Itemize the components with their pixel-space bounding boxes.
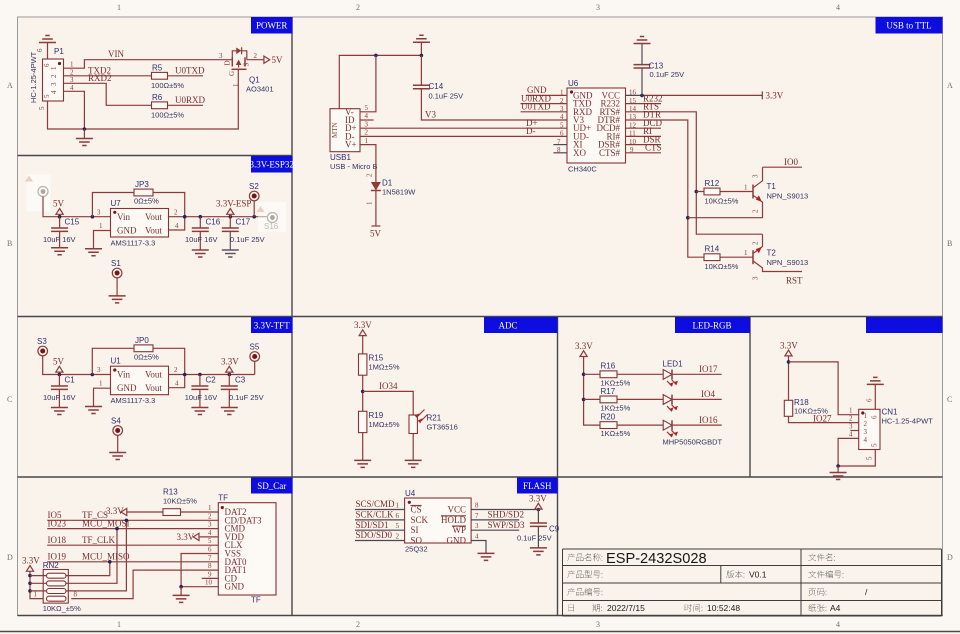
wire IO34 [363,391,414,415]
capacitor C1 [51,375,68,408]
svg-text:DTR: DTR [643,110,661,120]
svg-text:100Ω±5%: 100Ω±5% [151,81,184,90]
svg-text:R16: R16 [601,362,616,371]
ground R21 [405,460,422,467]
svg-text:3.3V-ESP32: 3.3V-ESP32 [249,160,293,170]
power port 3.3V LED [575,341,600,425]
junction C14 top [420,54,424,58]
svg-text:7: 7 [208,554,212,562]
svg-text:3.3V: 3.3V [575,341,593,351]
svg-text:JP0: JP0 [135,336,149,345]
ground U4 [478,553,495,560]
svg-text:3: 3 [365,120,369,128]
svg-text:5: 5 [866,456,874,460]
svg-text:VIN: VIN [108,49,124,59]
svg-text:GND: GND [117,383,137,393]
wire R15 to R19 [362,375,364,411]
resistor R6 [152,102,168,109]
svg-text:5: 5 [208,537,212,545]
svg-text:2: 2 [752,241,760,245]
svg-text:MCU_MISO: MCU_MISO [82,552,130,562]
svg-text:TF: TF [218,494,228,503]
wire U7 Vout pin4 jog [169,217,185,230]
wire GND label U6 pin1 [526,94,567,96]
svg-text:8: 8 [74,591,78,599]
test point S3 [37,337,111,375]
wire VCC to 3.3V [626,94,643,96]
svg-text:S4: S4 [111,417,121,426]
svg-text:1KΩ±5%: 1KΩ±5% [601,403,631,412]
svg-text:4: 4 [560,113,564,121]
svg-text:MHP5050RGBDT: MHP5050RGBDT [663,438,723,447]
svg-text:CTS#: CTS# [599,148,621,158]
svg-text:IO0: IO0 [784,157,798,167]
svg-text:0.1uF 25V: 0.1uF 25V [229,393,264,402]
svg-text:4: 4 [50,90,58,94]
svg-text:2: 2 [174,209,178,217]
svg-text:S16: S16 [264,222,279,231]
svg-text:VCC: VCC [447,505,466,515]
svg-text:1: 1 [99,222,103,230]
wire Q1 source to 5V [247,59,264,61]
svg-text:5: 5 [38,106,46,110]
svg-text:0Ω±5%: 0Ω±5% [134,197,159,206]
svg-text:2: 2 [50,74,58,78]
svg-text:0Ω±5%: 0Ω±5% [134,353,159,362]
resistor R14 [704,254,753,261]
wire V3 [421,89,567,120]
svg-text:B: B [7,239,12,248]
svg-text:2: 2 [864,420,868,428]
junction C9 [537,508,541,512]
wire U1 GND pin [94,388,111,406]
section tab blank right [866,317,943,333]
capacitor C14 [413,55,430,88]
wire DTR [626,110,705,258]
wire IO23 MCU_MOSI [47,528,218,530]
wire IO18 TF_CLK [47,544,218,546]
svg-text:3.3V-ESP: 3.3V-ESP [216,199,251,209]
svg-text:SD_Car: SD_Car [257,481,286,491]
svg-text:10uF 16V: 10uF 16V [43,235,76,244]
svg-text:3: 3 [475,522,479,530]
svg-text:Vin: Vin [117,212,130,222]
P1 inner pin digits [43,63,58,98]
svg-text:2: 2 [356,620,360,629]
svg-text:USB1: USB1 [330,153,351,162]
svg-text:6: 6 [43,63,51,67]
capacitor C17 [222,217,239,250]
svg-text:ADC: ADC [498,321,517,331]
resistor R16 [584,371,664,378]
svg-text:5: 5 [871,443,879,447]
svg-text:R5: R5 [152,64,163,73]
ground C2 [191,408,208,415]
svg-text:S3: S3 [37,337,47,346]
junction RN2 r3 [28,589,32,593]
svg-text:JP3: JP3 [135,180,149,189]
junction IO34 [361,390,365,394]
svg-text:SCK/CLK: SCK/CLK [356,510,395,520]
wire TXD2 to R5 [64,75,152,77]
test point S1 [111,259,122,296]
svg-text:10KΩ±5%: 10KΩ±5% [705,197,739,206]
svg-text:RST: RST [786,276,803,286]
ground C17 [222,250,239,257]
svg-text:V0.1: V0.1 [749,570,767,580]
svg-text:AMS1117-3.3: AMS1117-3.3 [111,239,156,248]
wire RN2 r1 to MISO [66,562,110,576]
svg-text:GT36516: GT36516 [427,423,458,432]
svg-text:IO27: IO27 [813,413,832,423]
svg-text:4: 4 [864,436,868,444]
svg-text:NPN_S9013: NPN_S9013 [767,258,809,267]
wire 3.3V to CN1 pin1 [789,362,859,415]
svg-text:B: B [947,239,952,248]
svg-text:6: 6 [36,48,44,52]
junction C17 [229,215,233,219]
svg-text:3.3V-TFT: 3.3V-TFT [254,321,290,331]
svg-text:3.3V: 3.3V [780,340,798,350]
svg-text:SCK: SCK [411,515,429,525]
svg-text:10uF 16V: 10uF 16V [185,235,218,244]
wire IO0 [763,166,803,168]
title date label [569,605,574,612]
wire U4 VCC [471,509,538,511]
svg-text:1N5819W: 1N5819W [382,188,416,197]
svg-text:8: 8 [475,502,479,510]
resistor JP3 [134,189,153,196]
svg-text:IO17: IO17 [699,364,718,374]
pin 3 stub CN1 [850,430,858,432]
svg-text:1: 1 [232,83,240,87]
svg-text:3: 3 [596,3,600,12]
power port 5V POWER [264,55,283,65]
svg-text:4: 4 [208,529,212,537]
wire R13 to TF pin1 [181,511,219,513]
svg-text:5: 5 [365,104,369,112]
section tab ADC [484,317,558,333]
svg-text:RXD2: RXD2 [88,73,112,83]
wire U0RXD [168,104,204,106]
junction RN2 r2 [28,582,32,586]
power port 3.3V R13 [106,506,127,516]
wire D+ [360,127,567,129]
svg-text:2: 2 [254,52,258,60]
wire RN2 r3 to TF_CS [66,520,126,591]
title version label [726,570,744,578]
svg-text:3: 3 [97,366,101,374]
svg-text:1: 1 [744,184,748,192]
svg-text:3: 3 [219,52,223,60]
svg-text:SI: SI [411,525,419,535]
svg-text:10uF 16V: 10uF 16V [185,393,218,402]
net label SDO/SD0 [355,530,405,540]
svg-text:FLASH: FLASH [523,481,552,491]
power port 3.3V VCC [762,91,783,101]
svg-text:5V: 5V [272,55,284,65]
net label CTS [626,143,662,153]
wire DAT1 to RN2 [71,570,218,599]
svg-text:10uF 16V: 10uF 16V [43,393,76,402]
svg-text:C15: C15 [65,218,80,227]
svg-text:1: 1 [117,3,121,12]
wire RXD2 to R6 [64,83,152,105]
svg-text:R12: R12 [705,179,720,188]
svg-text:6: 6 [560,130,564,138]
wire RTS [626,102,763,235]
svg-text:Vout: Vout [145,383,162,393]
resistor R5 [152,72,168,79]
svg-text:3.3V: 3.3V [22,556,40,566]
svg-text:2022/7/15: 2022/7/15 [607,603,645,613]
svg-text:D-: D- [526,126,536,136]
wire P1 pin4 to bus [64,91,85,129]
wire VSS to GND [181,554,218,587]
wire 3.3V to R13 [127,511,163,513]
svg-text:3: 3 [752,276,760,280]
power port 3.3V CN1 [780,340,798,400]
svg-text:SHD/SD2: SHD/SD2 [488,510,525,520]
svg-text:R13: R13 [163,488,178,497]
svg-text:0.1uF 25V: 0.1uF 25V [230,235,265,244]
svg-text:AO3401: AO3401 [246,85,274,94]
svg-text:2: 2 [396,532,400,540]
svg-text:1: 1 [365,137,369,145]
svg-text:1MΩ±5%: 1MΩ±5% [369,363,400,372]
ground S1 [109,296,126,303]
svg-text:SWP/SD3: SWP/SD3 [488,520,526,530]
svg-text:6: 6 [396,512,400,520]
svg-text:4: 4 [475,532,479,540]
svg-text:R6: R6 [152,93,163,102]
svg-text:1: 1 [849,407,853,415]
svg-text:2: 2 [752,209,760,213]
svg-text:U0TXD: U0TXD [175,66,205,76]
svg-text:4: 4 [836,3,840,12]
svg-text:3.3V: 3.3V [529,494,547,504]
junction R17 [582,398,586,402]
capacitor C15 [51,217,68,248]
wire V- riser [360,55,376,111]
wire V+ to D1 [360,145,376,182]
ground S4 [109,453,126,460]
svg-text:ESP-2432S028: ESP-2432S028 [606,551,707,567]
ground R19 [354,460,371,467]
net label R232 [626,93,663,103]
ground C16 [192,250,209,257]
svg-text:AMS1117-3.3: AMS1117-3.3 [111,396,156,405]
svg-text:GND: GND [225,582,245,592]
svg-text:25Q32: 25Q32 [405,545,428,554]
svg-text:U7: U7 [111,199,122,208]
junction C3 [228,373,232,377]
svg-text:D: D [7,553,13,562]
svg-text:S1: S1 [111,259,121,268]
svg-text:IO16: IO16 [699,415,718,425]
svg-text:U6: U6 [568,79,579,88]
title time label [685,604,703,612]
svg-text:10KΩ±5%: 10KΩ±5% [163,497,197,506]
net label DSR [626,134,662,144]
svg-text:1: 1 [117,620,121,629]
resistor R17 [584,396,664,403]
U4 pin name WP [452,525,466,535]
capacitor C2 [191,375,208,408]
svg-text:2: 2 [356,3,360,12]
svg-text:U1: U1 [111,357,122,366]
net label SHD/SD2 [471,510,524,520]
svg-text:Vout: Vout [145,226,162,236]
watermark testpoint left [25,175,51,212]
wire IO4 [672,398,722,400]
power port 3.3V VDD [177,532,200,542]
svg-text:4: 4 [849,430,853,438]
svg-text:A: A [947,81,953,90]
svg-text:0.1uF 25V: 0.1uF 25V [650,70,685,79]
junction R12 [695,190,699,194]
svg-text:Vout: Vout [145,370,162,380]
svg-text:G: G [228,71,236,76]
wire U1 Vout pin4 jog [169,375,185,388]
svg-text:10KΩ_±5%: 10KΩ_±5% [43,604,81,613]
svg-text:LED1: LED1 [663,360,684,369]
svg-text:R17: R17 [601,387,616,396]
capacitor C3 [221,375,238,408]
wire CN1 pin6 [874,384,876,409]
svg-text:MTN: MTN [331,122,339,138]
test point S2 [249,182,259,217]
svg-text:5V: 5V [53,357,65,367]
test point S5 [250,343,260,375]
connector USB1 [330,109,360,152]
svg-text:4: 4 [365,112,369,120]
ground above C13 [634,37,651,65]
junction C13 [640,94,644,98]
net label SCK/CLK [355,510,405,520]
svg-text:GND: GND [447,535,467,545]
svg-text:V3: V3 [425,110,436,120]
svg-text:7: 7 [475,512,479,520]
svg-text:R15: R15 [369,354,384,363]
title block grid [563,549,942,616]
svg-text:USB - Micro B: USB - Micro B [330,162,378,171]
svg-text:1: 1 [50,66,58,70]
svg-text:T2: T2 [767,249,777,258]
svg-text:4: 4 [175,380,179,388]
svg-text:5: 5 [396,522,400,530]
svg-text:9: 9 [208,570,212,578]
ground C15 [51,248,68,255]
svg-text:C14: C14 [429,82,444,91]
power port 3.3V ADC [354,320,372,354]
svg-text:NPN_S9013: NPN_S9013 [767,192,809,201]
wire USB top bus [339,55,421,108]
U4 pin name CS [411,505,422,515]
svg-text:Vin: Vin [117,370,130,380]
svg-text:A: A [7,81,13,90]
svg-text:U4: U4 [405,489,416,498]
ground C3 [221,408,238,415]
wire 5V input ESP32 [43,197,111,217]
svg-text:1: 1 [208,504,212,512]
capacitor C16 [192,217,209,250]
svg-text:IO23: IO23 [48,518,67,528]
junction C15 [58,215,62,219]
title file-name label [808,553,834,561]
power port 3.3V RN2 [22,556,47,599]
junction TF_CS [125,519,129,523]
svg-text:Q1: Q1 [249,76,260,85]
pin 4 stub USB1 [360,119,374,121]
wire IO19 MCU_MISO [47,561,218,563]
resistor R20 [600,422,663,429]
LED blue [663,420,678,437]
title product-number label [567,588,602,596]
transistor Q1 [224,47,251,87]
wire IO17 [672,373,722,375]
section tab LED-RGB [675,317,750,333]
svg-text:5: 5 [43,94,51,98]
junction 3.3V CN1 [787,360,791,364]
chip U6 CH340C [567,88,626,163]
diode D1 [371,182,381,191]
svg-text:1MΩ±5%: 1MΩ±5% [369,420,400,429]
svg-text:1: 1 [366,201,374,205]
wire JP0 branch [92,348,184,374]
svg-text:2: 2 [174,366,178,374]
svg-text:C9: C9 [549,525,560,534]
svg-text:USB to TTL: USB to TTL [886,21,931,31]
wire U0TXD [168,75,204,77]
section tab 3.3V-ESP32 [249,156,293,173]
svg-text:10:52:48: 10:52:48 [707,603,740,613]
svg-text:6: 6 [866,398,874,402]
junction C2 [198,373,202,377]
svg-text:D: D [947,553,953,562]
pin 9 stub TF [202,577,219,579]
svg-text:TF_CLK: TF_CLK [82,535,116,545]
power port 3.3V TFT [221,357,239,375]
wire D1 to 5V [375,191,377,227]
svg-text:3: 3 [208,521,212,529]
junction TF gnd [179,585,183,589]
connector P1 [43,59,64,101]
svg-text:SO: SO [411,535,423,545]
resistor network RN2 [30,570,68,604]
svg-text:3: 3 [752,174,760,178]
svg-text:S2: S2 [249,182,259,191]
svg-text:V+: V+ [345,140,357,150]
junction Vout node TFT [183,373,187,377]
power port 5V TFT [53,357,65,375]
svg-text:1KΩ±5%: 1KΩ±5% [601,429,631,438]
resistor R12 [696,188,753,195]
svg-text:3.3V: 3.3V [354,320,372,330]
ground POWER bottom [76,129,93,146]
svg-text:Vout: Vout [145,212,162,222]
regulator U1 [111,366,169,395]
svg-text:2: 2 [366,173,374,177]
ground P1 top [39,36,56,60]
wire P1 ground bus [48,70,239,129]
svg-text:3.3V: 3.3V [221,357,239,367]
power port 3.3V U4 [529,494,547,509]
junction Vout node [183,215,187,219]
svg-text:SDI/SD1: SDI/SD1 [356,520,389,530]
svg-text:R21: R21 [427,414,442,423]
wire U0TXD U6 pin3 [521,111,568,113]
